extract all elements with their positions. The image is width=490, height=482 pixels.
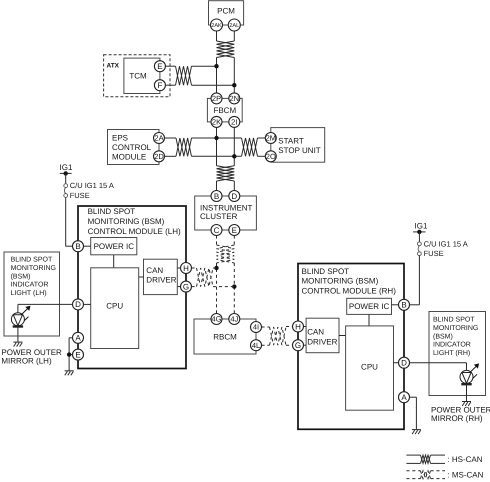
wire BSM LH pin E to ground run (69, 354, 72, 356)
module START STOP UNIT (271, 128, 325, 163)
svg-text:D: D (75, 300, 81, 309)
wire IG1 right to fuse (418, 232, 420, 242)
pin A of BSM LH (73, 332, 84, 343)
module BLIND SPOT MONITORING (BSM) CONTROL MODULE (LH) (78, 206, 186, 369)
wire MS-CAN BSM LH pin H stub (192, 267, 197, 269)
svg-text:CONTROL MODULE (LH): CONTROL MODULE (LH) (88, 227, 181, 236)
module INSTRUMENT CLUSTER (195, 196, 257, 230)
module FBCM (207, 98, 242, 122)
node junction EPS CAN-L on right bus line (232, 154, 236, 158)
wire MS-CAN twisted pair to BSM RH pin G (286, 344, 293, 346)
fuse C/U IG1 15 A left (64, 181, 114, 200)
node IG1 right power feed (413, 222, 428, 234)
node junction TCM CAN-H on left bus line (214, 64, 218, 68)
wire TCM pin F to twisted pair (165, 84, 175, 86)
svg-text:A: A (401, 393, 407, 402)
wire EPS CAN-H across bus to start stop twisted pair (192, 137, 242, 139)
wire twisted pair to START STOP pin 2M (258, 137, 266, 139)
wire MS-CAN RBCM pin 4I stub (262, 326, 270, 328)
svg-text:2AK: 2AK (211, 23, 222, 29)
pin 2N of FBCM (229, 93, 240, 104)
svg-text:MONITORING: MONITORING (433, 325, 478, 332)
svg-text:PCM: PCM (217, 7, 235, 16)
module BLIND SPOT MONITORING (BSM) INDICATOR LIGHT (LH) (4, 252, 60, 336)
svg-text:CAN: CAN (146, 266, 163, 275)
svg-text:CLUSTER: CLUSTER (200, 212, 238, 221)
block CPU of BSM LH (91, 268, 139, 349)
wire twisted pair to FBCM pin 2P (216, 58, 218, 93)
twisted pair HS-CAN TCM branch (176, 66, 192, 85)
svg-text:2M: 2M (266, 134, 276, 143)
svg-text:G: G (183, 282, 189, 291)
wire twisted pair to HS-CAN bus CAN-H (192, 65, 217, 67)
svg-text:4G: 4G (211, 315, 221, 324)
wire TCM pin E to twisted pair (165, 65, 175, 67)
svg-text:2O: 2O (266, 152, 276, 161)
wire BSM LH pin D to indicator light LH (18, 304, 73, 312)
svg-text:MONITORING (BSM): MONITORING (BSM) (302, 277, 379, 286)
ground indicator light RH (462, 402, 471, 407)
LED arrow RH (470, 363, 479, 378)
block POWER IC of BSM LH (91, 238, 137, 255)
svg-text:2D: 2D (154, 152, 164, 161)
svg-text:CPU: CPU (361, 362, 378, 371)
svg-text:MIRROR (RH): MIRROR (RH) (431, 414, 483, 423)
svg-text:MODULE: MODULE (112, 152, 146, 161)
wire MS-CAN twisted pair to left bus junction (213, 267, 217, 269)
svg-text:D: D (231, 192, 237, 201)
wire CAN DRIVER to CPU BSM RH (339, 335, 346, 337)
svg-text:EPS: EPS (112, 134, 128, 143)
module RBCM (194, 319, 256, 354)
svg-text:BLIND SPOT: BLIND SPOT (11, 257, 53, 264)
svg-text:IG1: IG1 (60, 163, 73, 172)
wire MS-CAN twisted pair to BSM RH pin H (286, 326, 293, 328)
pin B of BSM RH (399, 299, 410, 310)
wire MS-CAN right bus down to RBCM pin 4J (233, 263, 235, 314)
ground BSM LH pins A and E (65, 371, 74, 376)
node junction BSM LH CAN-H on MS-CAN left line (214, 266, 218, 270)
svg-text:(BSM): (BSM) (11, 272, 31, 280)
node junction pin E ground (67, 352, 71, 356)
pin 2I of FBCM (229, 116, 240, 127)
pin 2O of START STOP UNIT (265, 151, 276, 162)
pin E of TCM (154, 61, 165, 72)
LED arrow LH (21, 306, 30, 321)
pin D of BSM RH (399, 357, 410, 368)
node junction BSM LH CAN-L on MS-CAN right line (232, 284, 236, 288)
wire pin G to CAN DRIVER BSM RH (304, 344, 307, 346)
wire twisted pair to FBCM pin 2N (233, 58, 235, 93)
pin D of BSM LH (73, 299, 84, 310)
legend MS-CAN sample (406, 471, 445, 479)
pin 4I of RBCM (251, 322, 262, 333)
svg-text:F: F (157, 81, 162, 90)
LED indicator light LH (11, 313, 24, 327)
wire MS-CAN left bus down to RBCM pin 4G (216, 263, 218, 314)
svg-text:INDICATOR: INDICATOR (433, 342, 471, 349)
pin 4G of RBCM (211, 314, 222, 325)
node junction EPS CAN-H on left bus line (214, 136, 218, 140)
svg-text:LIGHT (RH): LIGHT (RH) (433, 349, 470, 357)
twisted pair HS-CAN EPS branch (176, 138, 192, 156)
svg-text:D: D (401, 359, 407, 368)
svg-text:2A: 2A (154, 134, 163, 143)
svg-text:INDICATOR: INDICATOR (11, 282, 49, 289)
wire MS-CAN cluster pin C to twisted pair (216, 236, 218, 246)
svg-text:BLIND SPOT: BLIND SPOT (302, 267, 350, 276)
legend label MS-CAN (447, 471, 483, 480)
label POWER OUTER MIRROR (RH) (431, 406, 490, 423)
svg-text:4J: 4J (230, 315, 238, 324)
svg-text:B: B (214, 192, 219, 201)
node IG1 left power feed (60, 163, 73, 175)
svg-text:A: A (75, 334, 81, 343)
pin 2D of EPS (154, 151, 165, 162)
block CAN DRIVER of BSM LH (144, 259, 178, 294)
svg-text:H: H (183, 264, 189, 273)
pin F of TCM (154, 80, 165, 91)
twisted pair HS-CAN bus to instrument cluster (217, 166, 235, 181)
svg-text:ATX: ATX (107, 62, 120, 69)
svg-text:E: E (232, 226, 237, 235)
pin G of BSM RH (293, 340, 304, 351)
twisted pair HS-CAN start stop branch (242, 138, 258, 156)
module TCM (124, 58, 160, 93)
module BLIND SPOT MONITORING (BSM) CONTROL MODULE (RH) (298, 264, 404, 430)
wire EPS pin 2D to twisted pair (165, 155, 177, 157)
svg-text:: MS-CAN: : MS-CAN (447, 471, 483, 480)
svg-text:CONTROL: CONTROL (112, 143, 152, 152)
svg-text:MONITORING (BSM): MONITORING (BSM) (88, 217, 165, 226)
module EPS CONTROL MODULE (108, 130, 160, 165)
pin 2K of FBCM (211, 116, 222, 127)
wire twisted pair to HS-CAN bus CAN-L (192, 84, 235, 86)
pin B of BSM LH (73, 241, 84, 252)
svg-text:: HS-CAN: : HS-CAN (447, 455, 482, 464)
fuse C/U IG1 15 A right (418, 239, 468, 258)
wire BSM LH pin D to CPU (84, 303, 91, 305)
LED indicator light RH (460, 370, 473, 384)
svg-text:(BSM): (BSM) (433, 332, 453, 340)
svg-text:4L: 4L (252, 341, 260, 350)
svg-text:BLIND SPOT: BLIND SPOT (88, 207, 136, 216)
wire POWER IC to CPU BSM LH (113, 255, 115, 268)
wire PCM pin 2AL to twisted pair (233, 31, 235, 41)
svg-text:CAN: CAN (307, 327, 324, 336)
dashed ATX group box (104, 55, 170, 97)
wire LED LH to ground (17, 327, 19, 341)
svg-text:4I: 4I (253, 323, 259, 332)
wire CPU to BSM RH pin D (394, 362, 399, 364)
svg-text:FUSE: FUSE (70, 191, 90, 200)
block POWER IC of BSM RH (347, 298, 392, 314)
svg-text:DRIVER: DRIVER (307, 337, 337, 346)
wire IG1 left to fuse (65, 173, 67, 183)
legend label HS-CAN (447, 455, 482, 464)
block CAN DRIVER of BSM RH (306, 318, 339, 353)
wire POWER IC to BSM RH pin B (392, 304, 399, 306)
svg-text:B: B (401, 301, 406, 310)
wire PCM pin 2AK to twisted pair (216, 31, 218, 41)
pin 2M of START STOP UNIT (265, 133, 276, 144)
svg-text:C/U IG1 15 A: C/U IG1 15 A (424, 239, 468, 248)
node junction TCM CAN-L on right bus line (232, 83, 236, 87)
wire pin H to CAN DRIVER BSM RH (304, 326, 307, 328)
svg-text:2AL: 2AL (229, 23, 239, 29)
pin 2AL of PCM (228, 19, 240, 31)
svg-text:BLIND SPOT: BLIND SPOT (433, 317, 475, 324)
pin D of instrument cluster (229, 191, 240, 202)
wire twisted pair to START STOP pin 2O (258, 155, 266, 157)
wire FBCM pin 2I down HS-CAN right bus (233, 127, 235, 165)
wire FBCM pin 2K down HS-CAN left bus (216, 127, 218, 165)
pin 2A of EPS (154, 133, 165, 144)
svg-text:START: START (278, 136, 304, 145)
module BLIND SPOT MONITORING (BSM) INDICATOR LIGHT (RH) (429, 312, 486, 396)
wire CAN DRIVER to pin H BSM LH (177, 267, 180, 269)
wire MS-CAN BSM LH pin G stub (192, 286, 197, 288)
wire BSM LH pin B to POWER IC (84, 245, 91, 247)
svg-text:FUSE: FUSE (424, 249, 444, 258)
pin A of BSM RH (399, 392, 410, 403)
svg-text:RBCM: RBCM (213, 332, 237, 341)
wire BSM RH pin A to ground (410, 397, 417, 429)
pin E of BSM LH (73, 349, 84, 360)
wire BSM RH pin D to indicator light RH (410, 363, 467, 371)
svg-text:STOP UNIT: STOP UNIT (278, 146, 320, 155)
svg-text:TCM: TCM (129, 72, 147, 81)
pin C of instrument cluster (211, 225, 222, 236)
pin 2AK of PCM (211, 19, 223, 31)
wire EPS pin 2A to twisted pair (165, 137, 177, 139)
svg-text:E: E (157, 62, 162, 71)
svg-text:CONTROL MODULE (RH): CONTROL MODULE (RH) (302, 287, 397, 296)
pin H of BSM LH (181, 263, 192, 274)
wire MS-CAN cluster pin E to twisted pair (233, 236, 235, 246)
wire EPS CAN-L across bus to start stop twisted pair (192, 155, 242, 157)
wire LED RH to ground (466, 385, 468, 401)
svg-text:B: B (75, 242, 80, 251)
pin G of BSM LH (181, 281, 192, 292)
wire twisted pair to cluster pin D (233, 181, 235, 191)
svg-text:IG1: IG1 (415, 222, 428, 231)
svg-text:MONITORING: MONITORING (11, 265, 56, 272)
svg-text:FBCM: FBCM (213, 106, 236, 115)
pin 4J of RBCM (229, 314, 240, 325)
pin E of instrument cluster (229, 225, 240, 236)
wire fuse to BSM RH pin B (410, 256, 420, 305)
svg-text:C: C (214, 226, 220, 235)
svg-text:LIGHT (LH): LIGHT (LH) (11, 289, 47, 297)
svg-text:2N: 2N (230, 94, 240, 103)
svg-text:POWER IC: POWER IC (349, 302, 390, 311)
svg-text:MIRROR (LH): MIRROR (LH) (1, 356, 52, 365)
wire CAN DRIVER to pin G BSM LH (177, 286, 180, 288)
svg-text:POWER IC: POWER IC (94, 242, 135, 251)
module PCM (209, 1, 244, 25)
wire CPU to CAN DRIVER BSM LH (139, 276, 144, 278)
pin 2P of FBCM (211, 93, 222, 104)
svg-text:2K: 2K (212, 118, 221, 127)
ground BSM RH pin A (412, 430, 421, 435)
pin H of BSM RH (293, 321, 304, 332)
svg-text:2I: 2I (231, 118, 237, 127)
svg-text:2P: 2P (212, 94, 221, 103)
wire twisted pair to cluster pin B (216, 181, 218, 191)
svg-text:CPU: CPU (106, 301, 123, 310)
wire fuse to BSM LH pin B (66, 197, 73, 246)
svg-text:E: E (75, 350, 80, 359)
twisted pair MS-CAN BSM LH branch (197, 268, 214, 287)
wire MS-CAN twisted pair to right bus junction (213, 286, 234, 288)
svg-text:G: G (295, 341, 301, 350)
wire BSM LH pin A to ground run (69, 338, 72, 371)
twisted pair MS-CAN RBCM to BSM RH (270, 327, 287, 345)
block CPU of BSM RH (346, 326, 394, 410)
pin 4L of RBCM (251, 340, 262, 351)
pin B of instrument cluster (211, 191, 222, 202)
twisted pair HS-CAN PCM to FBCM (217, 41, 235, 58)
label POWER OUTER MIRROR (LH) (1, 348, 62, 365)
svg-text:C/U IG1 15 A: C/U IG1 15 A (70, 181, 114, 190)
ground indicator light LH (13, 342, 22, 347)
wire MS-CAN RBCM pin 4L stub (262, 344, 270, 346)
wire POWER IC to CPU BSM RH (368, 314, 370, 326)
svg-text:H: H (295, 322, 301, 331)
legend HS-CAN sample (406, 455, 445, 463)
svg-text:DRIVER: DRIVER (146, 276, 176, 285)
twisted pair MS-CAN cluster to RBCM (217, 245, 235, 263)
